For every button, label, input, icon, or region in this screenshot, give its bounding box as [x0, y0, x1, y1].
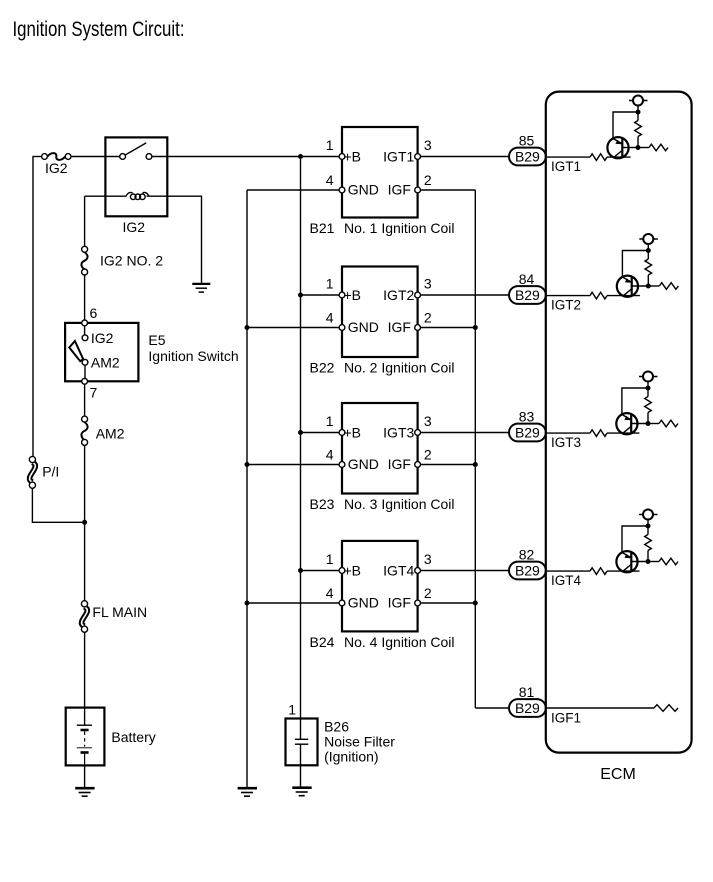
- coil 2 pin 3 terminal: [415, 292, 421, 298]
- wire fuse IG2 to relay: [71, 156, 120, 158]
- relay IG2 switch contacts: [120, 143, 152, 160]
- svg-text:No. 2 Ignition Coil: No. 2 Ignition Coil: [344, 360, 455, 376]
- wire left vertical feed (battery + to P/I): [32, 157, 34, 460]
- ECM IGT4 driver stage: [547, 510, 678, 575]
- svg-text:+B: +B: [344, 149, 362, 165]
- battery box: [66, 708, 105, 766]
- wire resistor to transistor: [607, 295, 640, 297]
- coil 1 pin 2 terminal: [415, 187, 421, 193]
- junction IGT1 collector feed: [636, 110, 641, 115]
- junction IGF bus coil 4: [473, 601, 478, 606]
- svg-text:+B: +B: [344, 425, 362, 441]
- wire resistor to transistor: [607, 432, 639, 434]
- coil 2 pin 1 terminal: [339, 292, 345, 298]
- svg-text:Ignition Switch: Ignition Switch: [148, 348, 238, 364]
- svg-text:85: 85: [519, 133, 535, 149]
- wire output node to resistor: [638, 147, 649, 149]
- svg-text:+B: +B: [344, 287, 362, 303]
- junction IGT4 collector feed: [646, 524, 651, 529]
- resistor IGF1: [654, 705, 678, 712]
- svg-text:4: 4: [326, 447, 334, 463]
- svg-text:1: 1: [326, 413, 334, 429]
- power terminal IGT1: [629, 100, 648, 102]
- wire top feed corner to fuse IG2: [32, 156, 41, 158]
- svg-text:Noise Filter: Noise Filter: [324, 733, 395, 749]
- wire resistor to output node: [637, 137, 639, 148]
- wire power to junction: [647, 382, 649, 397]
- svg-text:No. 1 Ignition Coil: No. 1 Ignition Coil: [344, 220, 455, 236]
- wire battery to ground: [84, 765, 86, 787]
- svg-text:1: 1: [326, 276, 334, 292]
- connector B29 pin 83: [509, 424, 546, 442]
- wire IGT1 input inside ECM: [547, 156, 590, 158]
- ignition switch AM2 terminal: [82, 359, 88, 365]
- svg-text:B29: B29: [515, 563, 540, 579]
- coil 1 pin 4 terminal: [339, 187, 345, 193]
- coil 3 pin 4 terminal: [339, 462, 345, 468]
- junction +B bus top: [298, 154, 303, 159]
- ignition coil B21 box: [342, 127, 418, 218]
- coil 1 pin 1 terminal: [339, 154, 345, 160]
- svg-text:2: 2: [424, 585, 432, 601]
- svg-text:ECM: ECM: [600, 766, 636, 783]
- resistor IGT2 output: [659, 283, 678, 290]
- wire GND bus stub to coil 2 pin 4: [247, 327, 339, 329]
- relay IG2 box: [105, 137, 167, 216]
- wire power to junction: [637, 106, 639, 121]
- junction IGT3 output node: [646, 421, 651, 426]
- coil 2 pin 2 terminal: [415, 325, 421, 331]
- svg-text:IGT4: IGT4: [551, 573, 581, 588]
- wire resistor to transistor: [607, 156, 631, 158]
- ignition coil B22 box: [342, 267, 418, 358]
- coil 4 pin 2 terminal: [415, 600, 421, 606]
- connector B29 pin 81: [509, 699, 546, 717]
- junction IGT4 output node: [646, 559, 651, 564]
- ECM IGT3 driver stage: [547, 372, 678, 437]
- wire P/I to junction: [32, 488, 84, 522]
- svg-text:4: 4: [326, 310, 334, 326]
- wire resistor to output node: [647, 275, 649, 286]
- resistor IGT1 pull-up: [635, 121, 642, 137]
- connector B29 pin 85: [509, 148, 546, 166]
- ground (GND bus): [238, 788, 257, 796]
- svg-text:B26: B26: [324, 719, 349, 735]
- wire pin 7 to fuse AM2: [84, 384, 86, 416]
- wire IGF bus vertical: [474, 190, 476, 708]
- svg-text:IGT2: IGT2: [383, 287, 414, 303]
- wire output node to resistor: [648, 285, 659, 287]
- fuse IG2: [42, 153, 71, 160]
- transistor Q IGT1: [607, 137, 628, 158]
- ground (relay coil): [192, 284, 210, 292]
- wire coil 3 IGF pin to IGF bus: [421, 464, 476, 466]
- wire GND bus vertical: [246, 190, 248, 787]
- wire pin6 to IG2 terminal: [84, 326, 86, 335]
- wire coil 3 IGT pin to ECM connector: [421, 432, 513, 434]
- svg-text:IGT3: IGT3: [383, 425, 414, 441]
- junction +B bus coil 4: [298, 568, 303, 573]
- svg-text:GND: GND: [348, 456, 379, 472]
- svg-text:B29: B29: [515, 149, 540, 165]
- ECM box: [546, 92, 692, 753]
- resistor IGT3 base: [590, 430, 607, 437]
- svg-text:GND: GND: [348, 319, 379, 335]
- coil 3 pin 3 terminal: [415, 430, 421, 436]
- wire coil 2 IGF pin to IGF bus: [421, 327, 476, 329]
- svg-text:IG2: IG2: [91, 330, 114, 346]
- coil 3 pin 1 terminal: [339, 430, 345, 436]
- wire FL MAIN to battery: [84, 632, 86, 725]
- ECM IGT2 driver stage: [547, 234, 679, 299]
- wire GND bus stub to coil 4 pin 4: [247, 602, 339, 604]
- svg-text:Ignition System Circuit:: Ignition System Circuit:: [13, 18, 185, 41]
- junction IGT2 output node: [646, 284, 651, 289]
- junction IGT3 collector feed: [646, 386, 651, 391]
- junction IGF bus coil 2: [473, 325, 478, 330]
- resistor IGT3 pull-up: [645, 397, 652, 413]
- junction GND bus coil 3: [245, 462, 250, 467]
- ignition switch pin 7 terminal: [82, 378, 88, 384]
- wire GND bus stub to coil 3 pin 4: [247, 464, 339, 466]
- resistor IGT4 base: [590, 568, 607, 575]
- svg-text:4: 4: [326, 172, 334, 188]
- svg-text:B29: B29: [515, 700, 540, 716]
- svg-text:(Ignition): (Ignition): [324, 748, 378, 764]
- svg-text:B21: B21: [310, 220, 335, 236]
- svg-text:81: 81: [519, 684, 535, 700]
- resistor IGT4 output: [659, 558, 678, 565]
- wire IGF bus to ECM IGF1 connector: [475, 707, 512, 709]
- svg-text:IGT1: IGT1: [551, 159, 581, 174]
- ignition switch E5 box: [65, 323, 138, 381]
- svg-text:P/I: P/I: [42, 464, 59, 480]
- svg-text:3: 3: [424, 551, 432, 567]
- svg-text:IG2 NO. 2: IG2 NO. 2: [100, 253, 163, 269]
- svg-text:83: 83: [519, 409, 535, 425]
- svg-text:2: 2: [424, 172, 432, 188]
- svg-text:3: 3: [424, 137, 432, 153]
- svg-text:IGT2: IGT2: [551, 298, 581, 313]
- wire IGT2 input inside ECM: [547, 295, 590, 297]
- transistor Q IGT2: [617, 276, 638, 297]
- ignition switch IG2 terminal: [82, 335, 88, 341]
- power terminal IGT4: [639, 514, 658, 516]
- junction +B bus coil 2: [298, 293, 303, 298]
- junction IGT2 collector feed: [646, 248, 651, 253]
- svg-text:AM2: AM2: [91, 355, 120, 371]
- wire resistor to output node: [647, 551, 649, 562]
- svg-text:2: 2: [424, 447, 432, 463]
- transistor Q IGT4: [616, 551, 637, 572]
- wire L to transistor collector: [622, 388, 648, 415]
- svg-text:2: 2: [424, 310, 432, 326]
- wire relay output to +B bus and coil 1 pin 1: [152, 156, 339, 158]
- ground (battery): [75, 788, 94, 796]
- wire AM2 terminal to pin 7: [84, 365, 86, 381]
- ignition coil B23 box: [342, 403, 418, 494]
- wire L to transistor collector: [613, 112, 638, 139]
- svg-text:IG2: IG2: [123, 219, 146, 235]
- connector B29 pin 84: [509, 286, 546, 304]
- wire relay coil right to ground: [147, 196, 202, 283]
- wire L to transistor collector: [622, 251, 648, 278]
- wire transistor base lead: [622, 147, 638, 149]
- wire output node to resistor: [648, 561, 659, 563]
- svg-text:IGT1: IGT1: [383, 149, 414, 165]
- wire transistor base lead: [631, 561, 648, 563]
- resistor IGT2 base: [590, 292, 607, 299]
- coil 4 pin 4 terminal: [339, 600, 345, 606]
- wire relay coil left leg down to fuse IG2 NO.2: [84, 196, 86, 246]
- wire IGT4 input inside ECM: [547, 570, 590, 572]
- ignition switch blade: [69, 341, 83, 361]
- ECM IGT1 driver stage: [547, 96, 668, 161]
- svg-text:B29: B29: [515, 425, 540, 441]
- resistor IGT1 output: [649, 144, 668, 151]
- resistor IGT3 output: [659, 420, 678, 427]
- junction GND bus coil 2: [245, 325, 250, 330]
- wire resistor to output node: [647, 413, 649, 424]
- svg-text:IGT3: IGT3: [551, 435, 581, 450]
- wire transistor base lead: [632, 285, 649, 287]
- coil 4 pin 3 terminal: [415, 568, 421, 574]
- svg-text:B23: B23: [310, 496, 335, 512]
- svg-text:3: 3: [424, 276, 432, 292]
- noise filter B26 box: [286, 719, 318, 766]
- battery cell symbol: [77, 725, 92, 765]
- fuse AM2: [81, 416, 87, 445]
- wire IGT3 input inside ECM: [547, 432, 590, 434]
- svg-text:No. 4 Ignition Coil: No. 4 Ignition Coil: [344, 634, 455, 650]
- power terminal IGT2: [639, 238, 658, 240]
- svg-text:4: 4: [326, 585, 334, 601]
- wire junction to FL MAIN: [84, 522, 86, 601]
- fuse IG2 NO. 2: [81, 246, 87, 275]
- wire coil 1 IGT pin to ECM connector: [421, 156, 513, 158]
- wire fuse IG2 NO.2 to ignition switch pin 6: [84, 275, 86, 323]
- svg-text:IG2: IG2: [45, 160, 68, 176]
- svg-text:1: 1: [326, 551, 334, 567]
- junction battery feed: [82, 520, 87, 525]
- svg-text:IGF: IGF: [388, 456, 411, 472]
- wire coil 4 IGT pin to ECM connector: [421, 570, 513, 572]
- svg-text:IGF1: IGF1: [551, 711, 581, 726]
- junction GND bus coil 4: [245, 601, 250, 606]
- svg-text:82: 82: [519, 547, 535, 563]
- junction IGT1 output node: [636, 145, 641, 150]
- power terminal IGT3: [639, 376, 658, 378]
- wire coil 4 IGF pin to IGF bus: [421, 602, 476, 604]
- wire L to transistor collector: [622, 526, 648, 553]
- coil 2 pin 4 terminal: [339, 325, 345, 331]
- svg-text:+B: +B: [344, 563, 362, 579]
- svg-text:6: 6: [90, 305, 98, 321]
- coil 4 pin 1 terminal: [339, 568, 345, 574]
- svg-text:IGF: IGF: [388, 182, 411, 198]
- wire coil 1 IGF pin to IGF bus corner: [421, 189, 476, 191]
- junction +B bus coil 3: [298, 430, 303, 435]
- coil 3 pin 2 terminal: [415, 462, 421, 468]
- svg-text:B24: B24: [310, 634, 335, 650]
- wire IGF1 inside ECM: [547, 707, 654, 709]
- transistor Q IGT3: [616, 413, 637, 434]
- capacitor C (noise filter): [295, 719, 308, 787]
- fusible link P/I: [29, 456, 35, 488]
- coil 1 pin 3 terminal: [415, 154, 421, 160]
- connector B29 pin 82: [509, 562, 546, 580]
- wire power to junction: [647, 520, 649, 535]
- wire coil 2 IGT pin to ECM connector: [421, 294, 513, 296]
- ignition switch pin 6 terminal: [82, 320, 88, 326]
- svg-text:1: 1: [288, 702, 296, 718]
- svg-text:GND: GND: [348, 182, 379, 198]
- wire +B bus stub to coil 3 pin 1: [301, 432, 340, 434]
- wire output node to resistor: [648, 423, 659, 425]
- svg-text:B22: B22: [310, 360, 335, 376]
- ignition coil B24 box: [342, 541, 418, 632]
- resistor IGT1 base: [590, 154, 607, 161]
- wire resistor to transistor: [607, 570, 640, 572]
- svg-text:IGT4: IGT4: [383, 563, 414, 579]
- svg-text:3: 3: [424, 413, 432, 429]
- ground (noise filter): [292, 788, 311, 796]
- svg-text:84: 84: [519, 271, 535, 287]
- wire +B bus stub to coil 2 pin 1: [301, 294, 340, 296]
- svg-text:AM2: AM2: [96, 426, 125, 442]
- resistor IGT2 pull-up: [645, 259, 652, 275]
- wire +B bus stub to coil 4 pin 1: [301, 570, 340, 572]
- svg-text:7: 7: [90, 385, 98, 401]
- fusible link FL MAIN: [81, 601, 87, 633]
- svg-text:IGF: IGF: [388, 319, 411, 335]
- wire transistor base lead: [631, 423, 648, 425]
- wire coil 1 pin 4 to GND bus corner: [247, 189, 339, 191]
- svg-text:GND: GND: [348, 595, 379, 611]
- relay coil L1: [126, 192, 149, 199]
- svg-text:B29: B29: [515, 287, 540, 303]
- svg-text:No. 3 Ignition Coil: No. 3 Ignition Coil: [344, 496, 455, 512]
- junction IGF bus coil 3: [473, 462, 478, 467]
- wire power to junction: [647, 244, 649, 259]
- svg-text:E5: E5: [148, 332, 165, 348]
- svg-text:1: 1: [326, 137, 334, 153]
- resistor IGT4 pull-up: [645, 535, 652, 551]
- svg-text:Battery: Battery: [111, 729, 155, 745]
- wire fuse AM2 down to junction: [84, 445, 86, 522]
- svg-text:FL MAIN: FL MAIN: [92, 604, 147, 620]
- relay coil wire left: [85, 195, 127, 197]
- wire +B bus vertical: [300, 157, 302, 719]
- svg-text:IGF: IGF: [388, 595, 411, 611]
